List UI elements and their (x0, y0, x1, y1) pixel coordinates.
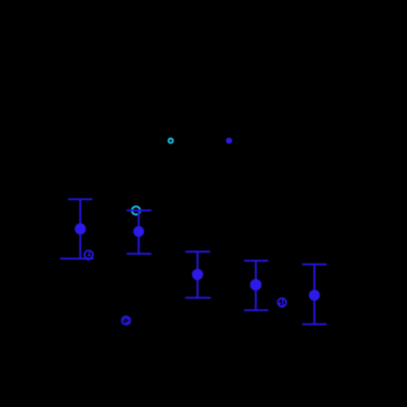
legend open-circle marker (cyan series) (169, 139, 173, 143)
small circled-glyph point near bar 4 (278, 298, 286, 307)
error bar 5 (302, 264, 326, 324)
marker point 1 (75, 223, 86, 234)
error bar 4 (244, 261, 268, 311)
legend filled-circle marker (blue series) (226, 138, 232, 144)
error bar 2 (127, 211, 152, 254)
error bar 3 (185, 252, 211, 298)
error bar 1 (60, 199, 93, 258)
marker point 3 (192, 269, 203, 280)
cyan open-circle point on bar 2 (132, 206, 140, 214)
marker point 4 (250, 279, 262, 291)
small circled-glyph point near bar 1 (85, 251, 93, 262)
marker point 5 (309, 290, 320, 301)
marker point 2 (133, 226, 144, 237)
small circled-glyph point lower left (122, 316, 130, 324)
